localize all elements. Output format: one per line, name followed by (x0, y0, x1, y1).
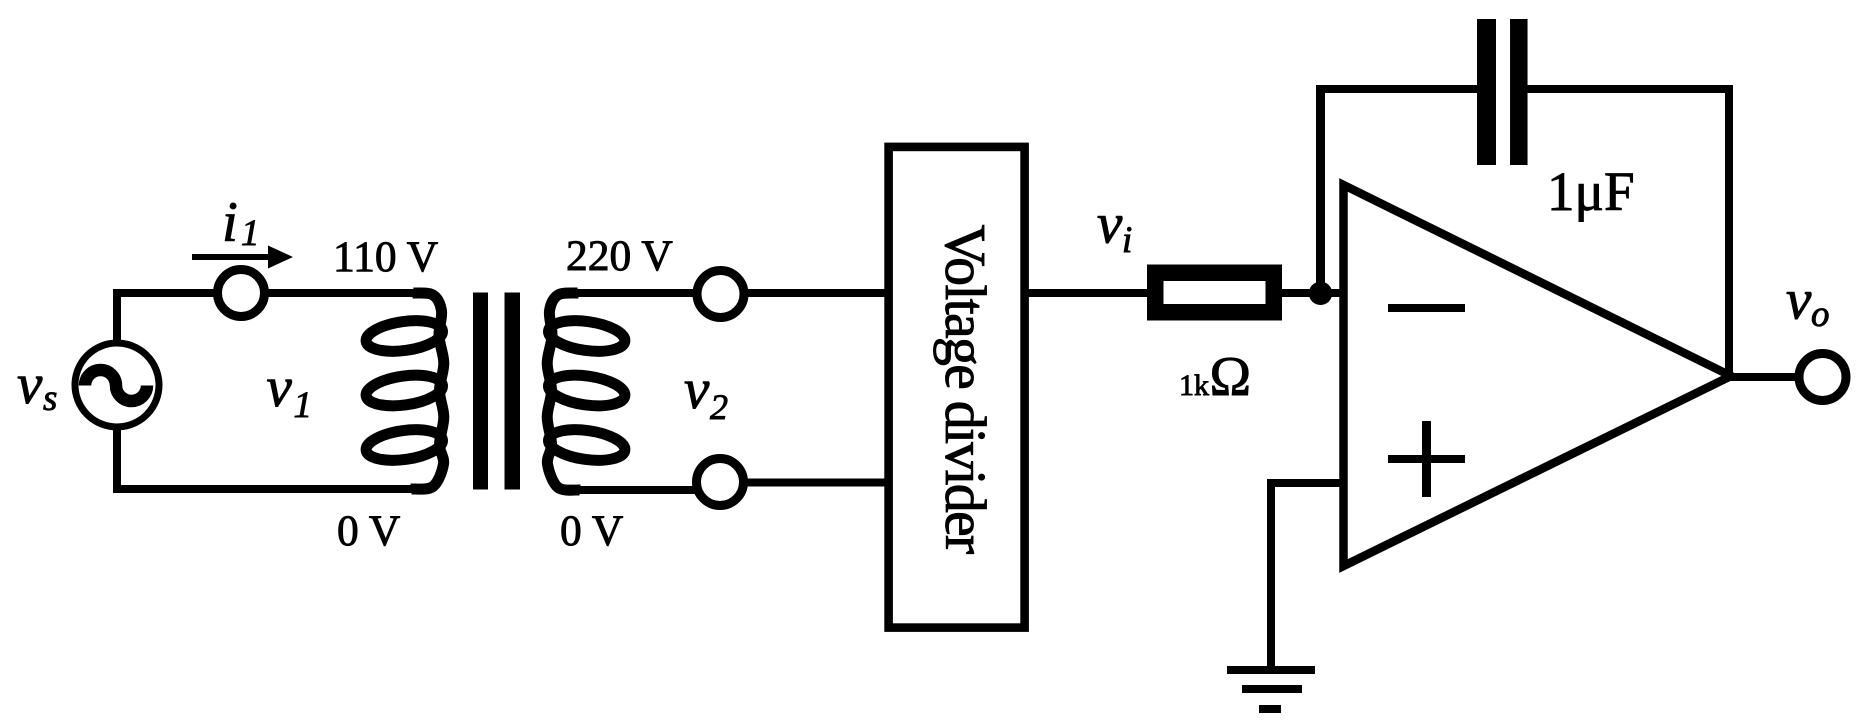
output terminal circle (1799, 354, 1846, 401)
svg-text:v: v (17, 353, 43, 416)
svg-text:Voltage divider: Voltage divider (933, 225, 998, 554)
capacitor C1 plates (1477, 19, 1496, 165)
resistor R1 1k ohm (1155, 273, 1274, 313)
wire: feedback left vertical (1316, 89, 1325, 293)
op-amp U1 (1344, 185, 1732, 566)
transformer secondary coil L2 (547, 293, 627, 490)
current arrow i1 (192, 246, 293, 269)
op-amp plus sign (1388, 455, 1465, 463)
svg-text:2: 2 (710, 387, 728, 427)
wire: op-amp output (1731, 373, 1800, 381)
svg-text:o: o (1811, 294, 1830, 335)
svg-text:i: i (222, 191, 238, 254)
wire: source loop bottom (117, 480, 413, 489)
wire: feedback top right segment (1519, 85, 1733, 93)
ground symbol (1227, 670, 1315, 709)
wire: feedback top left segment (1316, 85, 1486, 93)
svg-text:v: v (1097, 193, 1123, 256)
svg-text:v: v (684, 358, 710, 421)
svg-text:110 V: 110 V (333, 233, 438, 281)
svg-text:0 V: 0 V (560, 507, 623, 555)
wire: feedback right vertical (1725, 85, 1733, 377)
wire: secondary bottom to voltage divider (577, 486, 712, 494)
node junction dot (1309, 282, 1332, 305)
svg-text:1: 1 (241, 213, 260, 254)
transformer primary coil L1 (364, 293, 444, 489)
svg-text:Ω: Ω (1210, 346, 1252, 408)
wire: noninverting input to ground (1271, 483, 1344, 667)
svg-text:s: s (43, 378, 57, 419)
ac source VS (75, 343, 159, 427)
svg-text:1: 1 (294, 385, 313, 426)
wire: secondary top to voltage divider (575, 289, 890, 297)
wire: source loop top (117, 293, 414, 489)
svg-text:1μF: 1μF (1547, 161, 1635, 222)
wire: resistor to op-amp inverting input (1277, 289, 1344, 297)
svg-text:i: i (1122, 220, 1132, 261)
svg-text:1k: 1k (1179, 369, 1209, 402)
svg-text:0 V: 0 V (337, 507, 400, 555)
svg-text:v: v (1786, 269, 1812, 332)
terminal circle secondary top (697, 271, 744, 318)
terminal circle secondary bottom (697, 459, 744, 506)
voltage divider box (889, 147, 1025, 628)
svg-text:v: v (267, 356, 293, 419)
terminal circle on primary top wire (218, 270, 265, 317)
op-amp minus sign (1388, 304, 1465, 312)
svg-text:220 V: 220 V (566, 232, 673, 280)
wire: voltage divider to resistor (1025, 289, 1150, 297)
transformer core (473, 293, 488, 490)
